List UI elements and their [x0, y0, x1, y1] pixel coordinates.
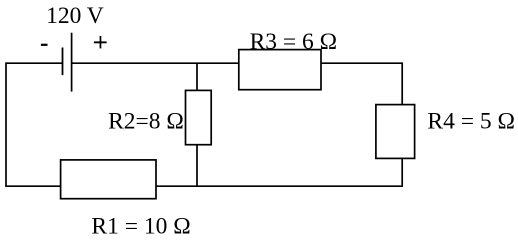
wire: R2 bottom lead to bottom rail junction [196, 145, 198, 187]
wire: top horizontal from R3 to top-right corner [321, 62, 402, 64]
resistor R2 (vertical box) [186, 90, 212, 144]
wire: right vertical from top-right corner down to R4 [401, 62, 403, 104]
label R2=8 ohm [108, 108, 184, 134]
svg-text:R4 = 5 Ω: R4 = 5 Ω [427, 109, 515, 135]
svg-text:R2=8 Ω: R2=8 Ω [108, 108, 184, 134]
wire: top horizontal from battery positive plate to R3 [72, 62, 239, 64]
battery minus sign [41, 44, 48, 46]
wire: bottom horizontal from R4 lead to R1 right side [156, 185, 402, 187]
battery V1 long positive plate [71, 33, 73, 92]
wire: R2 top lead from top wire junction [196, 63, 198, 90]
wire: top-left horizontal from left rail to battery negative plate [6, 62, 63, 64]
label R3 = 6 ohm [250, 29, 338, 55]
wire: R4 bottom lead down to bottom rail [401, 158, 403, 187]
resistor R1 (horizontal box) [61, 160, 156, 199]
wire: left vertical rail [5, 62, 7, 187]
label R1 = 10 ohm [91, 214, 190, 240]
label 120 V [46, 3, 104, 29]
wire: bottom horizontal from R1 left side to left rail [6, 185, 61, 187]
battery plus sign [94, 36, 107, 48]
resistor R3 (horizontal box) [239, 50, 321, 90]
resistor R4 (vertical box) [376, 105, 415, 159]
svg-text:120 V: 120 V [46, 3, 104, 29]
label R4 = 5 ohm [427, 109, 515, 135]
battery V1 short negative plate [62, 48, 64, 76]
svg-text:R1 = 10 Ω: R1 = 10 Ω [91, 214, 190, 240]
